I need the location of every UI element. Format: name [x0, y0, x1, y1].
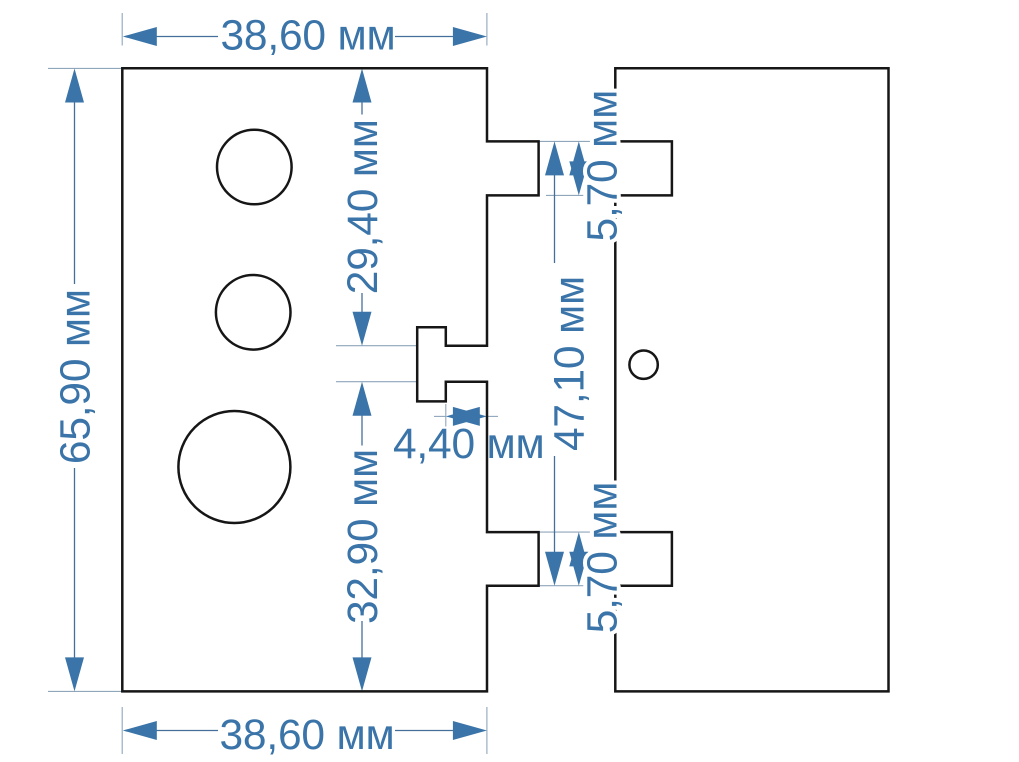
arrow 65.90 bottom [65, 657, 84, 691]
ext line tab1 bottom stub [546, 194, 615, 196]
ext line tab2 top stub [505, 531, 615, 533]
bowtie 5.70 bottom down arrow [569, 552, 588, 586]
dim line 32.90 lower segment [361, 621, 363, 658]
dim line 38.60 bottom left segment [156, 730, 218, 732]
dimension lines (blue) [75, 37, 555, 731]
left plate outline [122, 68, 538, 691]
dim line 29.40 upper segment [361, 102, 363, 115]
dim line 38.60 bottom right segment [395, 730, 454, 732]
arrow 47.10 top [545, 141, 564, 175]
arrow 32.90 top [353, 382, 372, 416]
svg-text:38,60 мм: 38,60 мм [220, 712, 395, 759]
arrow 38.60 top right [453, 27, 487, 46]
dim line 47.10 upper segment [554, 174, 556, 263]
bowtie 5.70 bottom up arrow [569, 532, 588, 566]
ext line top dim right [486, 13, 488, 46]
bowtie 4.40 right arrow [453, 407, 487, 426]
arrow 32.90 bottom [353, 657, 372, 691]
svg-text:5,70 мм: 5,70 мм [579, 90, 626, 242]
ext line tab1 top across gap [487, 140, 615, 142]
ext line slot bottom [336, 381, 417, 383]
ext line 65.90 bottom [48, 690, 122, 692]
bowtie 5.70 top down arrow [569, 161, 588, 195]
hole bottom large circle [178, 411, 290, 523]
right plate outline [615, 68, 888, 691]
svg-text:29,40 мм: 29,40 мм [340, 119, 387, 294]
bowtie 5.70 top up arrow [569, 141, 588, 175]
ext line bottom dim right [486, 707, 488, 754]
ext line slot top [336, 345, 417, 347]
dim line 65.90 upper segment [74, 102, 76, 284]
ext line 65.90 top [48, 67, 122, 69]
dim line 38.60 top right segment [395, 36, 454, 38]
svg-text:5,70 мм: 5,70 мм [579, 482, 626, 634]
arrow 65.90 top [65, 69, 84, 103]
ext line top dim left [121, 13, 123, 46]
ext line 4.40 left vertical [445, 404, 447, 427]
ext line bottom dim left [121, 707, 123, 754]
dim line 29.40 lower segment [361, 293, 363, 313]
hole top circle [217, 130, 292, 205]
hole middle circle [216, 275, 291, 350]
svg-text:65,90 мм: 65,90 мм [53, 289, 100, 464]
dim line 38.60 top left segment [156, 36, 218, 38]
ext line 4.40 right stub [487, 415, 498, 417]
svg-text:47,10 мм: 47,10 мм [547, 276, 594, 451]
hole small circle right plate [629, 351, 657, 379]
svg-text:4,40 мм: 4,40 мм [393, 421, 545, 468]
svg-text:32,90 мм: 32,90 мм [340, 449, 387, 624]
arrow 29.40 bottom [353, 312, 372, 346]
arrow 29.40 top [353, 69, 372, 103]
arrowheads (blue) [65, 27, 588, 740]
extension lines (thin light blue) [48, 13, 615, 754]
svg-text:38,60 мм: 38,60 мм [221, 13, 396, 60]
dim line 47.10 lower segment [554, 456, 556, 553]
ext line 4.40 left stub [434, 415, 446, 417]
dim line 65.90 lower segment [74, 468, 76, 658]
dim line 32.90 upper segment [361, 416, 363, 446]
arrow 38.60 top left [123, 27, 157, 46]
arrow 47.10 bottom [545, 552, 564, 586]
ext line tab2 bottom across gap [520, 585, 615, 587]
arrow 38.60 bottom left [123, 721, 157, 740]
arrow 38.60 bottom right [453, 721, 487, 740]
bowtie 4.40 left arrow [446, 407, 480, 426]
